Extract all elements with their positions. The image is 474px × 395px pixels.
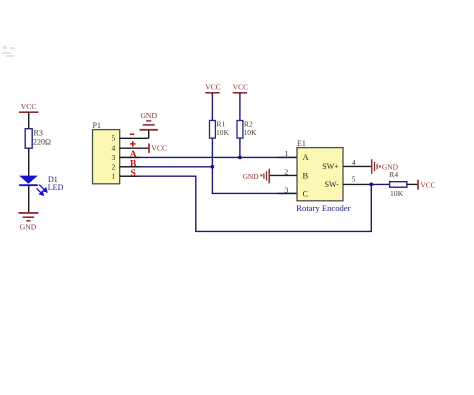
svg-text:4: 4	[112, 144, 116, 153]
svg-text:VCC: VCC	[420, 181, 435, 190]
svg-text:E1: E1	[297, 139, 306, 148]
svg-text:C: C	[303, 188, 309, 198]
svg-text:P1: P1	[93, 121, 101, 130]
svg-text:S: S	[131, 168, 136, 179]
svg-text:4: 4	[352, 158, 356, 167]
svg-text:VCC: VCC	[21, 102, 37, 111]
svg-text:1: 1	[112, 172, 116, 181]
svg-text:5: 5	[352, 174, 356, 183]
svg-text:GND: GND	[243, 172, 260, 181]
svg-text:220Ω: 220Ω	[33, 137, 51, 146]
svg-text:2: 2	[112, 162, 116, 171]
svg-text:SW+: SW+	[322, 162, 339, 171]
svg-text:Rotary Encoder: Rotary Encoder	[296, 203, 350, 213]
svg-text:3: 3	[285, 186, 289, 195]
svg-text:3: 3	[112, 153, 116, 162]
svg-text:LED: LED	[48, 183, 64, 192]
svg-text:10K: 10K	[244, 128, 258, 137]
svg-text:1: 1	[285, 149, 289, 158]
svg-text:VCC: VCC	[205, 82, 221, 91]
svg-text:R3: R3	[34, 128, 43, 137]
svg-text:SW-: SW-	[325, 180, 340, 189]
svg-text:10K: 10K	[216, 128, 230, 137]
svg-text:5: 5	[112, 134, 116, 143]
svg-text:GND: GND	[140, 111, 157, 120]
svg-text:VCC: VCC	[232, 82, 248, 91]
svg-text:R4: R4	[389, 170, 398, 179]
svg-text:B: B	[303, 170, 309, 180]
svg-text:GND: GND	[20, 222, 37, 231]
svg-text:VCC: VCC	[151, 144, 167, 153]
svg-text:10K: 10K	[390, 189, 404, 198]
svg-text:A: A	[303, 152, 310, 162]
